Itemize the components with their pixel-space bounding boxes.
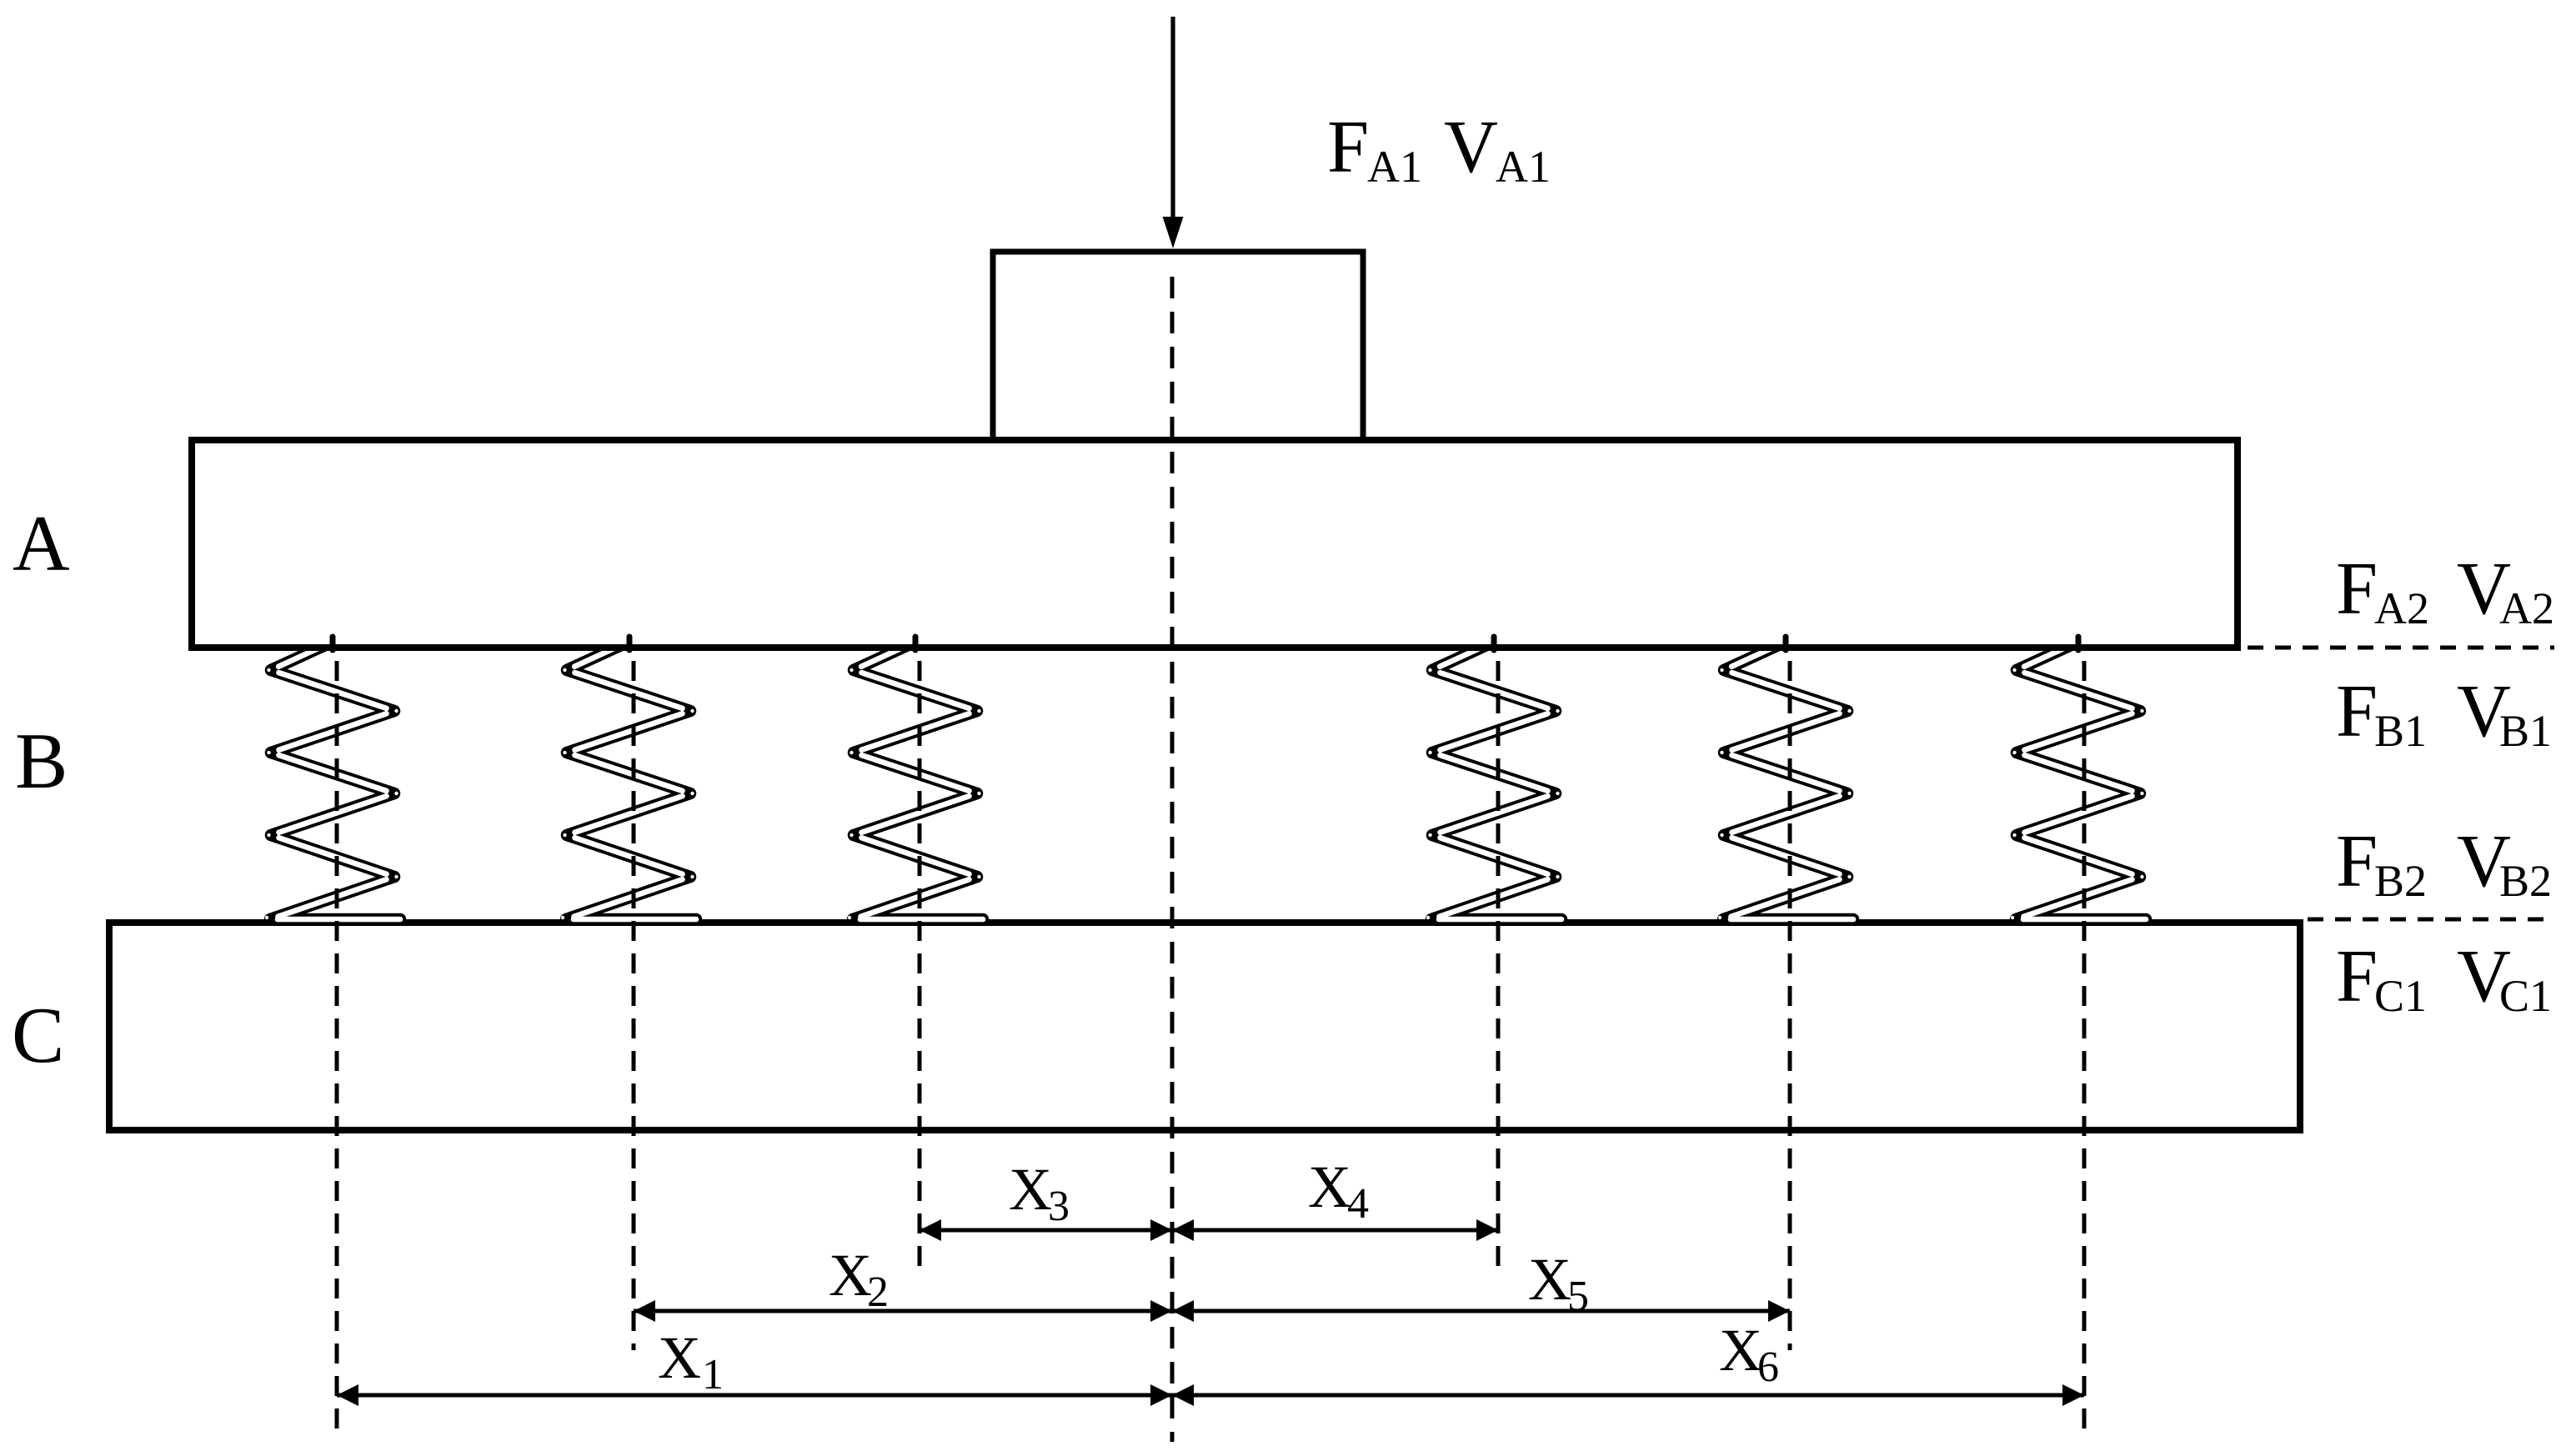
svg-text:A2: A2 xyxy=(2499,583,2554,633)
label X5 xyxy=(1528,1246,1589,1320)
svg-text:X: X xyxy=(1528,1246,1571,1313)
dimension X1 arrow (row 3 left) xyxy=(337,1384,1172,1406)
label F_B2 V_B2 (bottom of springs) xyxy=(2336,820,2552,906)
svg-text:5: 5 xyxy=(1567,1273,1589,1320)
spring 3 top tick xyxy=(913,637,919,650)
dimension X3 arrow (row 1 left) xyxy=(920,1219,1172,1241)
spring 4 foot highlight xyxy=(1426,916,1561,919)
spring 6 top tick xyxy=(2076,637,2082,650)
svg-text:C: C xyxy=(12,991,64,1079)
force arrow F_A1 (vertical, pointing down onto block) xyxy=(1163,17,1184,248)
plate C xyxy=(109,923,2300,1130)
spring 1 (coil between plate A and plate C) xyxy=(267,642,400,919)
dimension X4 arrow (row 1 right) xyxy=(1172,1219,1498,1241)
svg-text:F: F xyxy=(2336,548,2378,630)
label X6 xyxy=(1719,1317,1779,1391)
spring 3 (coil between plate A and plate C) xyxy=(849,642,983,919)
svg-text:X: X xyxy=(1719,1317,1762,1383)
spring 2 foot highlight xyxy=(561,916,696,919)
spring 2 top tick xyxy=(627,637,633,650)
spring 6 foot highlight xyxy=(2011,916,2146,919)
spring 5 (coil between plate A and plate C) xyxy=(1720,642,1853,919)
spring 4 (coil between plate A and plate C) xyxy=(1428,642,1561,919)
svg-text:X: X xyxy=(658,1324,701,1391)
svg-text:2: 2 xyxy=(867,1268,889,1316)
svg-text:A2: A2 xyxy=(2374,583,2429,633)
spring 5 centerline (dashed) xyxy=(1788,661,1792,1350)
svg-text:B2: B2 xyxy=(2499,856,2552,906)
svg-text:4: 4 xyxy=(1347,1180,1369,1228)
label X1 xyxy=(658,1324,724,1398)
spring 5 foot highlight xyxy=(1718,916,1853,919)
dimension X5 arrow (row 2 right) xyxy=(1172,1300,1790,1322)
svg-text:X: X xyxy=(829,1242,872,1308)
svg-text:C1: C1 xyxy=(2374,971,2427,1021)
plate A xyxy=(192,440,2238,648)
spring 2 centerline (dashed) xyxy=(632,661,636,1350)
svg-text:A1: A1 xyxy=(1367,142,1422,192)
spring 4 centerline (dashed) xyxy=(1496,661,1501,1277)
centerline (dashed vertical axis) xyxy=(1170,268,1175,1442)
svg-text:F: F xyxy=(1327,106,1369,188)
label F_B1 V_B1 (top of springs) xyxy=(2336,670,2552,756)
spring 5 top tick xyxy=(1783,637,1789,650)
label F_A1 V_A1 (applied force at top) xyxy=(1327,106,1551,192)
svg-text:B1: B1 xyxy=(2374,706,2427,756)
spring 4 top tick xyxy=(1491,637,1497,650)
svg-text:F: F xyxy=(2336,935,2378,1018)
svg-text:3: 3 xyxy=(1048,1183,1070,1230)
label X3 xyxy=(1009,1156,1070,1230)
svg-text:X: X xyxy=(1009,1156,1052,1223)
spring 3 centerline (dashed) xyxy=(918,661,922,1268)
spring 6 (coil between plate A and plate C) xyxy=(2012,642,2146,919)
spring 1 centerline (dashed) xyxy=(335,661,339,1437)
label F_A2 V_A2 (bottom of plate A) xyxy=(2336,548,2554,633)
spring 3 foot highlight xyxy=(848,916,983,919)
svg-text:B: B xyxy=(15,717,68,805)
spring 6 centerline (dashed) xyxy=(2082,661,2087,1437)
svg-text:F: F xyxy=(2336,670,2378,753)
svg-text:A: A xyxy=(13,499,70,588)
spring 1 top tick xyxy=(330,637,336,650)
dashed datum line at F_A2 level (right of plate A) xyxy=(2248,646,2554,650)
svg-text:X: X xyxy=(1308,1153,1351,1220)
svg-text:C1: C1 xyxy=(2499,971,2552,1021)
dashed datum line at F_B2 level (right of plate C) xyxy=(2308,918,2554,922)
label F_C1 V_C1 (top of plate C) xyxy=(2336,935,2552,1021)
svg-text:1: 1 xyxy=(702,1351,724,1398)
spring 2 (coil between plate A and plate C) xyxy=(563,642,696,919)
svg-text:F: F xyxy=(2336,820,2378,903)
dimension X2 arrow (row 2 left) xyxy=(634,1300,1172,1322)
svg-text:B2: B2 xyxy=(2374,856,2427,906)
svg-text:A1: A1 xyxy=(1496,142,1551,192)
label X2 xyxy=(829,1242,889,1316)
svg-text:B1: B1 xyxy=(2499,706,2552,756)
label X4 xyxy=(1308,1153,1369,1228)
svg-text:6: 6 xyxy=(1757,1343,1779,1391)
block (load pedestal on plate A) xyxy=(993,252,1363,441)
spring 1 foot highlight xyxy=(265,916,400,919)
dimension X6 arrow (row 3 right) xyxy=(1172,1384,2084,1406)
svg-text:V: V xyxy=(1444,106,1498,188)
